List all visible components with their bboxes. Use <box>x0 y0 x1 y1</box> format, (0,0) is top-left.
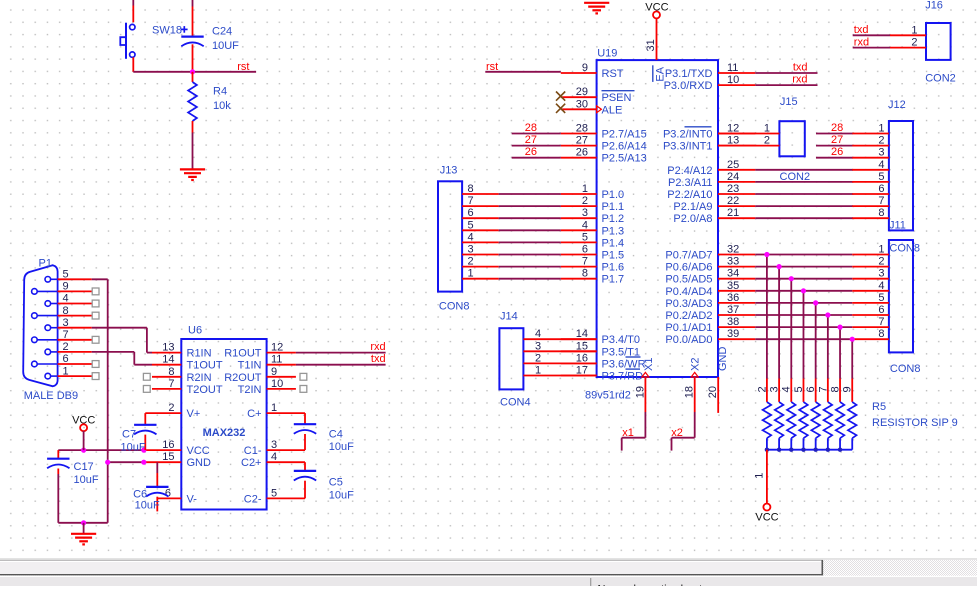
svg-text:VCC: VCC <box>755 512 778 524</box>
svg-text:27: 27 <box>525 134 537 146</box>
svg-text:2: 2 <box>764 135 770 147</box>
svg-text:P3.7/RD: P3.7/RD <box>602 371 644 383</box>
svg-text:7: 7 <box>63 329 69 341</box>
svg-text:5: 5 <box>582 231 588 243</box>
svg-text:C7: C7 <box>122 429 136 441</box>
svg-text:P0.5/AD5: P0.5/AD5 <box>665 274 712 286</box>
svg-text:10: 10 <box>271 378 283 390</box>
svg-text:2: 2 <box>878 135 884 147</box>
svg-text:20: 20 <box>707 386 719 398</box>
svg-text:1: 1 <box>468 268 474 280</box>
svg-text:R4: R4 <box>213 86 227 98</box>
svg-text:P0.0/AD0: P0.0/AD0 <box>665 334 712 346</box>
svg-text:P1.6: P1.6 <box>602 262 625 274</box>
svg-text:J11: J11 <box>889 220 906 232</box>
svg-text:P1.1: P1.1 <box>602 201 625 213</box>
svg-text:J15: J15 <box>780 96 798 108</box>
svg-text:P0.7/AD7: P0.7/AD7 <box>665 250 712 262</box>
svg-text:1: 1 <box>878 244 884 256</box>
svg-text:27: 27 <box>576 135 588 147</box>
svg-text:P2.6/A14: P2.6/A14 <box>602 141 647 153</box>
svg-text:4: 4 <box>878 280 884 292</box>
svg-text:7: 7 <box>878 316 884 328</box>
svg-text:R1IN: R1IN <box>187 348 212 360</box>
svg-text:1: 1 <box>764 123 770 135</box>
svg-text:37: 37 <box>727 304 739 316</box>
svg-text:4: 4 <box>271 451 277 463</box>
svg-text:13: 13 <box>162 342 174 354</box>
svg-text:27: 27 <box>831 134 843 146</box>
svg-text:10uF: 10uF <box>329 441 354 453</box>
svg-text:rxd: rxd <box>854 36 869 48</box>
svg-text:2: 2 <box>468 256 474 268</box>
svg-text:P3.1/TXD: P3.1/TXD <box>665 68 713 80</box>
svg-text:2: 2 <box>535 352 541 364</box>
svg-text:2: 2 <box>168 402 174 414</box>
svg-text:C2-: C2- <box>244 493 262 505</box>
svg-text:MAX232: MAX232 <box>203 427 246 439</box>
svg-text:5: 5 <box>63 269 69 281</box>
svg-text:txd: txd <box>793 61 808 73</box>
svg-text:2: 2 <box>756 386 768 392</box>
svg-text:5: 5 <box>271 487 277 499</box>
svg-text:CON8: CON8 <box>890 363 921 375</box>
svg-text:10uF: 10uF <box>74 474 99 486</box>
svg-text:26: 26 <box>831 146 843 158</box>
svg-text:P3.4/T0: P3.4/T0 <box>602 334 641 346</box>
svg-text:11: 11 <box>271 354 282 366</box>
svg-text:33: 33 <box>727 256 739 268</box>
svg-text:C17: C17 <box>74 461 94 473</box>
svg-text:26: 26 <box>525 146 537 158</box>
svg-text:T1OUT: T1OUT <box>187 360 223 372</box>
svg-text:11: 11 <box>727 62 738 74</box>
svg-text:x1: x1 <box>622 427 634 439</box>
svg-text:31: 31 <box>645 39 657 51</box>
svg-text:4: 4 <box>781 386 793 392</box>
svg-text:22: 22 <box>727 195 739 207</box>
svg-text:P2.1/A9: P2.1/A9 <box>673 201 712 213</box>
svg-text:1: 1 <box>911 24 917 36</box>
svg-text:35: 35 <box>727 280 739 292</box>
svg-text:8: 8 <box>582 268 588 280</box>
svg-text:3: 3 <box>768 386 780 392</box>
svg-text:P3.2/INT0: P3.2/INT0 <box>663 129 713 141</box>
svg-text:J13: J13 <box>440 165 458 177</box>
svg-text:1: 1 <box>63 365 69 377</box>
svg-text:P0.3/AD3: P0.3/AD3 <box>665 298 712 310</box>
svg-text:rxd: rxd <box>370 341 385 353</box>
svg-text:RESISTOR SIP 9: RESISTOR SIP 9 <box>872 417 958 429</box>
svg-text:6: 6 <box>878 304 884 316</box>
svg-text:3: 3 <box>271 439 277 451</box>
svg-text:C6: C6 <box>133 488 147 500</box>
svg-text:5: 5 <box>878 171 884 183</box>
svg-text:32: 32 <box>727 244 739 256</box>
svg-text:24: 24 <box>727 171 739 183</box>
svg-text:3: 3 <box>582 207 588 219</box>
svg-text:7: 7 <box>168 378 174 390</box>
svg-text:1: 1 <box>754 473 766 479</box>
svg-text:8: 8 <box>63 305 69 317</box>
svg-text:23: 23 <box>727 183 739 195</box>
svg-text:5: 5 <box>793 386 805 392</box>
svg-text:10: 10 <box>727 74 739 86</box>
svg-text:R5: R5 <box>872 401 886 413</box>
svg-text:10k: 10k <box>213 100 231 112</box>
svg-text:P1.0: P1.0 <box>602 189 625 201</box>
svg-text:J16: J16 <box>925 0 943 12</box>
svg-text:R1OUT: R1OUT <box>224 348 262 360</box>
svg-text:C4: C4 <box>329 429 343 441</box>
svg-text:P2.2/A10: P2.2/A10 <box>667 189 712 201</box>
svg-text:U6: U6 <box>188 325 202 337</box>
svg-text:2: 2 <box>911 37 917 49</box>
svg-text:34: 34 <box>727 268 739 280</box>
svg-text:SW18: SW18 <box>152 25 182 37</box>
svg-text:P2.0/A8: P2.0/A8 <box>673 213 712 225</box>
svg-text:6: 6 <box>468 207 474 219</box>
svg-text:CON4: CON4 <box>500 397 531 409</box>
svg-text:4: 4 <box>63 293 69 305</box>
svg-text:8: 8 <box>878 328 884 340</box>
svg-text:P1.7: P1.7 <box>602 274 625 286</box>
svg-text:38: 38 <box>727 316 739 328</box>
svg-text:1: 1 <box>535 365 541 377</box>
svg-text:4: 4 <box>535 328 541 340</box>
svg-text:CON2: CON2 <box>925 73 956 85</box>
svg-text:15: 15 <box>162 451 174 463</box>
svg-text:ALE: ALE <box>602 104 623 116</box>
svg-text:V-: V- <box>187 493 198 505</box>
svg-text:PSEN: PSEN <box>602 92 632 104</box>
svg-text:1: 1 <box>582 183 588 195</box>
svg-text:P3.3/INT1: P3.3/INT1 <box>663 141 713 153</box>
svg-text:28: 28 <box>831 122 843 134</box>
svg-text:14: 14 <box>162 354 174 366</box>
svg-text:3: 3 <box>468 244 474 256</box>
svg-text:T2OUT: T2OUT <box>187 384 223 396</box>
svg-text:7: 7 <box>468 195 474 207</box>
svg-text:P1.5: P1.5 <box>602 250 625 262</box>
svg-text:R2IN: R2IN <box>187 372 212 384</box>
svg-text:21: 21 <box>727 207 739 219</box>
svg-text:2: 2 <box>878 256 884 268</box>
svg-text:3: 3 <box>63 317 69 329</box>
svg-text:16: 16 <box>162 439 174 451</box>
svg-text:GND: GND <box>187 457 212 469</box>
svg-text:MALE DB9: MALE DB9 <box>24 390 78 402</box>
svg-text:P2.5/A13: P2.5/A13 <box>602 153 647 165</box>
svg-text:39: 39 <box>727 328 739 340</box>
svg-text:30: 30 <box>576 98 588 110</box>
svg-text:P1.3: P1.3 <box>602 225 625 237</box>
svg-text:1: 1 <box>878 123 884 135</box>
svg-text:29: 29 <box>576 86 588 98</box>
svg-text:P0.6/AD6: P0.6/AD6 <box>665 262 712 274</box>
svg-text:10uF: 10uF <box>121 442 146 454</box>
svg-text:x2: x2 <box>671 427 683 439</box>
svg-text:T1IN: T1IN <box>238 360 262 372</box>
svg-text:C1-: C1- <box>244 445 262 457</box>
svg-text:P1.2: P1.2 <box>602 213 625 225</box>
svg-text:7: 7 <box>582 256 588 268</box>
svg-text:8: 8 <box>468 183 474 195</box>
svg-text:10UF: 10UF <box>212 40 239 52</box>
svg-text:26: 26 <box>576 147 588 159</box>
svg-text:6: 6 <box>878 183 884 195</box>
svg-text:CON8: CON8 <box>439 301 470 313</box>
svg-text:X2: X2 <box>690 358 702 371</box>
svg-text:5: 5 <box>468 219 474 231</box>
svg-text:C+: C+ <box>247 408 261 420</box>
svg-text:txd: txd <box>371 353 386 365</box>
svg-text:4: 4 <box>878 159 884 171</box>
svg-text:8: 8 <box>829 386 841 392</box>
svg-text:V+: V+ <box>187 408 201 420</box>
svg-text:P3.0/RXD: P3.0/RXD <box>664 80 713 92</box>
svg-text:10uF: 10uF <box>329 489 354 501</box>
svg-text:C5: C5 <box>329 477 343 489</box>
svg-text:1: 1 <box>271 402 277 414</box>
svg-text:28: 28 <box>576 123 588 135</box>
svg-text:VCC: VCC <box>187 445 210 457</box>
svg-text:10uF: 10uF <box>135 500 160 512</box>
svg-text:P0.1/AD1: P0.1/AD1 <box>665 322 712 334</box>
svg-text:RST: RST <box>602 68 624 80</box>
svg-text:8: 8 <box>878 207 884 219</box>
svg-text:36: 36 <box>727 292 739 304</box>
svg-text:8: 8 <box>168 366 174 378</box>
svg-text:X1: X1 <box>643 358 655 371</box>
svg-text:C2+: C2+ <box>241 457 262 469</box>
svg-text:GND: GND <box>717 347 729 372</box>
svg-text:7: 7 <box>817 386 829 392</box>
svg-text:2: 2 <box>582 195 588 207</box>
svg-text:rxd: rxd <box>792 74 807 86</box>
svg-text:9: 9 <box>582 62 588 74</box>
svg-text:R2OUT: R2OUT <box>224 372 262 384</box>
svg-text:9: 9 <box>842 386 854 392</box>
svg-text:6: 6 <box>165 488 171 500</box>
svg-text:6: 6 <box>63 353 69 365</box>
svg-text:J14: J14 <box>500 311 518 323</box>
svg-text:3: 3 <box>535 340 541 352</box>
svg-text:2: 2 <box>63 341 69 353</box>
svg-text:25: 25 <box>727 159 739 171</box>
svg-text:18: 18 <box>683 386 695 398</box>
svg-text:T2IN: T2IN <box>238 384 262 396</box>
svg-text:3: 3 <box>878 268 884 280</box>
svg-text:12: 12 <box>271 342 283 354</box>
svg-text:txd: txd <box>854 24 869 36</box>
svg-text:3: 3 <box>878 147 884 159</box>
svg-text:P0.4/AD4: P0.4/AD4 <box>665 286 712 298</box>
svg-text:19: 19 <box>634 386 646 398</box>
svg-text:rst: rst <box>237 61 249 73</box>
svg-text:CON8: CON8 <box>889 243 920 255</box>
svg-text:6: 6 <box>582 244 588 256</box>
svg-text:4: 4 <box>468 231 474 243</box>
svg-text:P2.4/A12: P2.4/A12 <box>667 165 712 177</box>
svg-text:9: 9 <box>63 281 69 293</box>
svg-text:P1.4: P1.4 <box>602 237 625 249</box>
svg-text:4: 4 <box>582 219 588 231</box>
svg-text:28: 28 <box>525 122 537 134</box>
svg-text:C24: C24 <box>212 26 232 38</box>
svg-text:9: 9 <box>271 366 277 378</box>
svg-text:P1: P1 <box>39 257 52 269</box>
svg-text:P0.2/AD2: P0.2/AD2 <box>665 310 712 322</box>
svg-text:7: 7 <box>878 195 884 207</box>
svg-text:89v51rd2: 89v51rd2 <box>585 390 631 402</box>
svg-text:P2.3/A11: P2.3/A11 <box>668 177 712 189</box>
svg-text:6: 6 <box>805 386 817 392</box>
svg-text:5: 5 <box>878 292 884 304</box>
svg-text:P2.7/A15: P2.7/A15 <box>602 129 647 141</box>
svg-text:J12: J12 <box>888 99 906 111</box>
svg-text:U19: U19 <box>597 48 617 60</box>
